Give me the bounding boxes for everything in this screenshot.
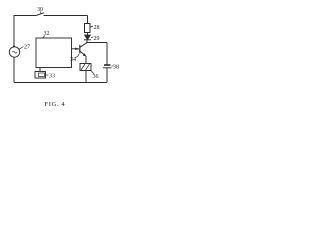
svg-text:38: 38: [113, 65, 119, 71]
diode 29: [85, 35, 91, 40]
wire : right vertical from top corner to resistor: [87, 16, 89, 24]
svg-text:27: 27: [24, 45, 30, 51]
transistor 34 collector: [80, 43, 87, 47]
svg-text:30: 30: [37, 7, 43, 13]
wire : left vertical from top corner down to source circle: [13, 15, 15, 46]
arrowhead on base wire: [75, 48, 79, 51]
node : junction at top of source: [13, 45, 15, 47]
heater box 36 hatch: [81, 64, 90, 70]
resistor 28: [85, 24, 91, 33]
svg-text:33: 33: [49, 74, 55, 80]
label 29 leader: [91, 36, 93, 39]
wire : top horizontal left of switch: [14, 15, 36, 17]
wire : right column down to capacitor: [106, 43, 108, 65]
wire : heater box to bottom rail: [85, 71, 87, 83]
svg-text:29: 29: [94, 36, 100, 42]
wire : diode to collector node: [86, 40, 88, 43]
transistor 34 emitter: [80, 51, 86, 56]
transistor 34 base bar: [79, 45, 81, 54]
wire : horizontal branch to right column: [87, 42, 107, 44]
box 32: [36, 38, 72, 68]
capacitor 38 bottom plate: [103, 67, 112, 69]
label 36 leader: [91, 71, 94, 75]
source 27 circle: [9, 47, 19, 57]
label 34 leader: [76, 54, 80, 58]
wire : below capacitor to bottom rail: [106, 68, 108, 83]
label 30 leader: [40, 12, 43, 15]
source 27 inner marking: [12, 51, 17, 53]
wire : bottom rail: [14, 82, 107, 84]
wire : resistor to diode: [87, 33, 89, 36]
box 33 inner rect: [39, 73, 45, 77]
capacitor 38 top plate: [104, 64, 111, 66]
wire : box32 to box33: [39, 68, 41, 72]
emitter arrowhead: [83, 53, 86, 56]
svg-text:28: 28: [94, 25, 100, 31]
wire : source circle to bottom rail: [13, 58, 15, 83]
wire : emitter down to heater box: [85, 56, 87, 64]
svg-text:34: 34: [70, 57, 76, 63]
label 38 leader: [112, 65, 114, 67]
node : collector junction: [86, 42, 88, 44]
svg-text:32: 32: [44, 31, 50, 37]
label 33 leader: [46, 74, 49, 76]
wire : top horizontal right of switch: [44, 15, 88, 17]
wire : box32 output to transistor base with arrow: [72, 48, 80, 50]
box 33: [35, 72, 46, 79]
label 27 leader: [19, 47, 24, 50]
svg-text:FIG. 4: FIG. 4: [45, 101, 66, 108]
heater box 36: [80, 64, 91, 71]
svg-text:36: 36: [93, 74, 99, 80]
switch 30 blade: [36, 13, 44, 16]
label 28 leader: [91, 26, 94, 27]
label 32 leader: [43, 36, 46, 39]
